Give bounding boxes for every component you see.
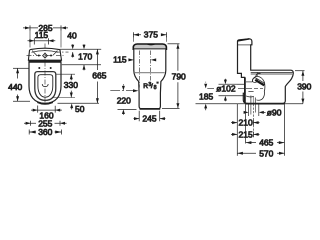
side body outline [238,39,294,104]
dimension 115 [28,38,56,44]
plan seat outer ring [35,72,56,101]
svg-text:185: 185 [199,91,213,101]
plan seat hinge dot left [38,67,40,69]
svg-text:330: 330 [64,80,78,90]
svg-text:50: 50 [75,104,85,114]
front cistern lid [133,44,166,49]
plan vertical centerline [44,44,46,105]
svg-text:245: 245 [142,114,156,124]
svg-text:170: 170 [78,52,92,62]
front inlet centerline 2 [149,51,151,81]
side cistern lid top thick [238,39,250,41]
plan flush button diamond [43,53,48,58]
hinge centerline dashdot right [57,51,69,53]
dimension 440 [13,68,30,101]
side hinge bolt circle [253,78,258,83]
front cistern body [134,49,166,109]
svg-text:220: 220 [117,95,131,105]
svg-text:375: 375 [144,30,158,40]
svg-text:360: 360 [38,127,52,137]
front pedestal bottom thick line [140,108,161,110]
svg-text:665: 665 [92,71,106,81]
svg-text:40: 40 [67,31,77,41]
dimension 255 [24,121,67,126]
dimension 215 [231,132,260,138]
svg-text:115: 115 [35,30,49,40]
plan cistern corner tick right [53,51,57,56]
svg-text:": " [157,82,159,88]
svg-text:440: 440 [8,82,22,92]
plan bowl opening inner ring [38,75,53,98]
side trap pipe verticals [246,82,255,103]
dimension 40 [71,44,74,57]
svg-text:570: 570 [259,148,273,158]
extension line B (seat back) [62,64,101,66]
side trap boot outline [252,76,265,100]
dimension 360 [29,130,61,135]
dimension 570 [237,152,284,155]
side outlet ext bottom [219,95,245,97]
side floor line [196,103,238,105]
front inlet centerline 1 [138,51,140,88]
side foot bottom thick [246,103,284,105]
label R3/8 [143,82,158,91]
svg-text:210: 210 [239,118,253,128]
side trap outlet flange stripe [255,78,265,85]
plan pedestal front thick arc [37,102,52,104]
dimension 375 [133,32,166,42]
side outlet axis dashdot [207,88,263,90]
side seat line 1 [251,71,293,73]
plan cistern corner tick left [32,51,36,56]
svg-text:ø102: ø102 [216,84,236,94]
dimension 285 [23,25,68,47]
dimension 790 [162,44,180,109]
plan seat hinge dot right [50,67,52,69]
dimension o102 [224,79,227,102]
side seat line 2 [251,73,293,75]
side cistern lid joint [238,44,252,46]
plan cistern bolt dot left [38,55,40,57]
side bowl rear thick edge [244,77,246,102]
dimension 210 [231,120,260,126]
plan horizontal centerline [27,55,64,57]
dimension 50 [70,104,73,109]
front water inlet axis dashdot [110,90,134,92]
side outlet ext top [219,83,245,85]
dimension 220 [118,84,137,115]
dimension 170 [83,44,86,70]
front cistern bottom joint line [135,72,165,74]
ext verticals below side view [236,104,238,156]
svg-text:465: 465 [259,138,273,148]
plan water smile curve [42,84,48,87]
dimension 390 [295,71,305,104]
dimension 160 [31,106,62,113]
svg-text:115: 115 [113,55,127,65]
extension line A top right [60,48,102,50]
plan cistern bolt dot right [50,55,52,57]
dimension 185 [204,82,207,111]
side seat hinge arcs [256,72,261,77]
plan bowl body outline [29,62,61,103]
dimension 330 [52,74,75,97]
dimension 665 [96,49,99,103]
svg-text:390: 390 [297,81,311,91]
dimension 465 [246,141,285,144]
extension line C bowl front [58,102,100,104]
label o90 [244,111,266,114]
svg-text:790: 790 [172,72,186,82]
svg-text:ø90: ø90 [267,107,282,117]
plan cistern body [28,48,61,63]
dimension 115 front [128,58,156,61]
plan cistern inner lid arc [32,51,59,53]
svg-text:215: 215 [239,129,253,139]
dimension 245 [134,111,166,122]
